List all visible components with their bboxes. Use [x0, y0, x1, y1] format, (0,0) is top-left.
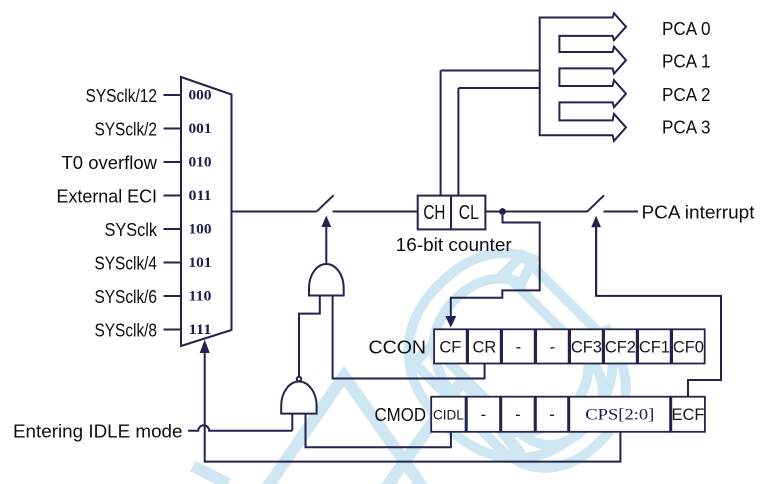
- svg-text:PCA 3: PCA 3: [662, 117, 711, 138]
- svg-text:SYSclk/8: SYSclk/8: [95, 319, 158, 340]
- svg-text:-: -: [550, 338, 556, 356]
- svg-text:Entering IDLE mode: Entering IDLE mode: [13, 421, 183, 442]
- svg-text:CR: CR: [472, 338, 496, 356]
- svg-text:CH: CH: [423, 202, 445, 224]
- svg-text:-: -: [515, 406, 521, 424]
- svg-text:CMOD: CMOD: [375, 404, 427, 425]
- svg-text:PCA interrupt: PCA interrupt: [642, 202, 756, 223]
- svg-text:101: 101: [189, 255, 212, 271]
- svg-text:-: -: [549, 406, 555, 424]
- svg-text:CF0: CF0: [673, 338, 704, 356]
- svg-text:SYSclk/2: SYSclk/2: [95, 118, 158, 139]
- svg-text:CF2: CF2: [605, 338, 636, 356]
- svg-text:111: 111: [189, 322, 212, 338]
- svg-text:CL: CL: [459, 202, 479, 224]
- svg-text:CF3: CF3: [571, 338, 602, 356]
- svg-text:PCA 2: PCA 2: [662, 84, 711, 105]
- svg-text:PCA 1: PCA 1: [662, 51, 711, 72]
- svg-text:PCA 0: PCA 0: [662, 18, 711, 39]
- svg-text:SYSclk/12: SYSclk/12: [86, 85, 158, 106]
- svg-text:SYSclk/6: SYSclk/6: [95, 286, 158, 307]
- svg-text:100: 100: [189, 222, 212, 238]
- svg-text:000: 000: [189, 88, 212, 104]
- svg-text:CCON: CCON: [369, 336, 427, 357]
- svg-text:011: 011: [189, 188, 212, 204]
- svg-text:T0 overflow: T0 overflow: [62, 152, 158, 173]
- svg-text:CPS[2:0]: CPS[2:0]: [585, 407, 654, 424]
- svg-text:SYSclk/4: SYSclk/4: [95, 252, 158, 273]
- svg-text:110: 110: [189, 289, 212, 305]
- svg-text:-: -: [481, 406, 487, 424]
- svg-text:CF: CF: [439, 338, 461, 356]
- svg-text:External ECI: External ECI: [57, 185, 158, 206]
- svg-text:010: 010: [189, 155, 212, 171]
- svg-text:CF1: CF1: [639, 338, 670, 356]
- svg-text:ECF: ECF: [672, 406, 705, 424]
- svg-text:001: 001: [189, 121, 212, 137]
- svg-text:16-bit counter: 16-bit counter: [396, 234, 512, 255]
- svg-text:SYSclk: SYSclk: [105, 219, 158, 240]
- svg-text:-: -: [516, 338, 522, 356]
- svg-text:CIDL: CIDL: [433, 408, 464, 423]
